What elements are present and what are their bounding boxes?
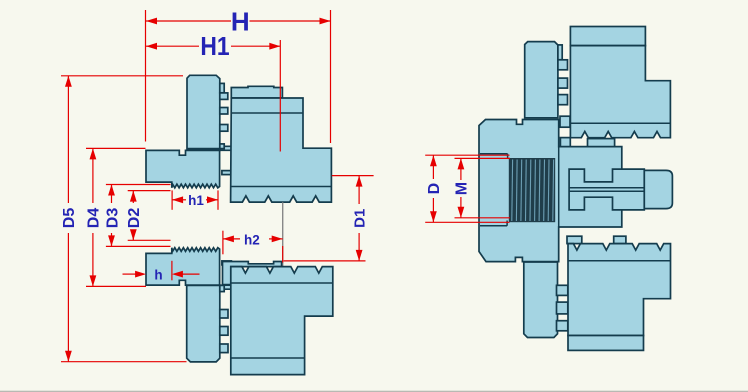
lower reversible jaw	[187, 285, 220, 362]
body sub-tab lower left	[567, 236, 582, 243]
dimension H1	[146, 45, 199, 47]
bore wall lines	[480, 153, 508, 155]
flange face line	[558, 147, 560, 262]
dimension D4	[92, 148, 94, 203]
dimension D3 extension lines	[106, 184, 171, 186]
key square end block	[644, 170, 672, 208]
dimension M extension lines	[455, 157, 511, 159]
dimension h tick	[171, 261, 173, 281]
bottom image border	[0, 391, 748, 392]
dimension D3	[111, 185, 113, 204]
jaw slot centerline (gray)	[282, 202, 284, 266]
dimension H1 extension line	[279, 40, 281, 152]
bottom master jaw block	[568, 244, 671, 336]
svg-text:D4: D4	[86, 208, 103, 229]
dimension D	[432, 155, 434, 179]
dimension D5 extension lines	[61, 75, 183, 77]
threaded bore hatch	[509, 158, 555, 222]
chuck body lower arm (left view section)	[146, 248, 231, 290]
dimension h1	[172, 199, 186, 201]
lower slot tongue	[222, 261, 232, 265]
dimension h1 ticks	[171, 190, 173, 209]
svg-text:D1: D1	[352, 209, 369, 228]
body sub-tab upper	[588, 139, 615, 147]
lower body internal lines	[231, 282, 333, 284]
upper body block with serrated guideway	[231, 98, 332, 202]
svg-text:H1: H1	[200, 33, 229, 62]
top jaw (right view)	[525, 42, 558, 118]
upper slot tongue	[222, 171, 232, 175]
svg-text:h: h	[154, 268, 162, 283]
lower jaw step	[220, 285, 224, 291]
body sub-tab lower right	[614, 236, 626, 243]
top jaw serration teeth	[558, 60, 568, 70]
upper jaw steps	[220, 83, 224, 92]
dimension D4 extension lines	[86, 147, 146, 149]
dimension D2	[132, 191, 134, 203]
svg-text:D3: D3	[104, 208, 121, 229]
bottom jaw serration teeth	[557, 285, 568, 295]
column lower step box	[560, 116, 570, 127]
dimension D1 extension lines	[332, 175, 374, 177]
dimension D extension lines	[425, 154, 509, 156]
svg-text:h2: h2	[244, 232, 260, 247]
dimension D2 extension lines	[128, 190, 171, 192]
chuck body flange (right view section)	[479, 120, 622, 262]
svg-text:H: H	[231, 7, 250, 37]
dimension h	[123, 273, 136, 275]
svg-text:M: M	[454, 182, 471, 195]
chuck body upper arm (left view section)	[146, 146, 231, 188]
dimension h2 ticks	[222, 231, 224, 255]
lower body mounting tabs	[223, 262, 282, 285]
bottom jaw (right view)	[524, 262, 558, 338]
svg-text:D5: D5	[61, 208, 78, 229]
dimension D5	[67, 76, 69, 203]
top master jaw cap	[570, 27, 645, 46]
dimension H	[146, 20, 231, 22]
svg-text:D: D	[426, 183, 443, 195]
operating key socket (H piece)	[569, 169, 644, 210]
svg-text:h1: h1	[188, 193, 204, 208]
upper jaw serration teeth	[220, 93, 228, 100]
bottom master jaw cap	[568, 336, 644, 351]
dimension M	[460, 158, 462, 180]
dimension D1	[358, 176, 360, 204]
upper reversible jaw	[187, 75, 220, 148]
dimension h2	[223, 238, 240, 240]
lower body block with serrated guideway	[231, 267, 333, 375]
top master jaw block	[570, 46, 670, 138]
dimension H extension lines	[145, 10, 147, 142]
svg-text:D2: D2	[126, 208, 143, 229]
lower jaw serration teeth	[220, 310, 228, 319]
body sub-tab upper-left column	[560, 138, 570, 147]
upper body mounting tabs	[231, 86, 282, 98]
upper body internal lines	[231, 112, 303, 114]
